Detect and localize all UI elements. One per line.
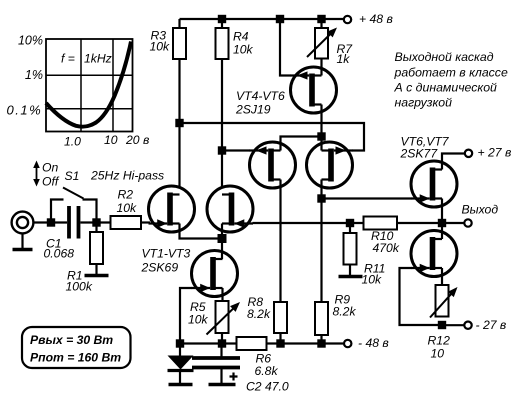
bottom line left segment: [180, 342, 237, 344]
svg-text:0.068: 0.068: [44, 247, 75, 261]
wire VT7 lower gate loop to R12 bottom: [400, 268, 443, 325]
output node junction: [438, 219, 446, 227]
svg-text:Рвых = 30 Вт: Рвых = 30 Вт: [30, 333, 113, 347]
svg-text:25Hz Hi-pass: 25Hz Hi-pass: [90, 169, 164, 183]
wire VT5 source to R8: [279, 180, 281, 303]
wire node B to R1: [95, 223, 97, 233]
junction VT4 gate column top: [276, 15, 284, 23]
wire rail to R7: [320, 19, 322, 28]
transistor VT1 2SK69: [149, 186, 195, 232]
transistor VT7 lower 2SK77: [411, 231, 457, 277]
capacitor C1: [67, 206, 71, 239]
wire diode to ground: [179, 371, 181, 384]
node G junction VT1 VT2 sources VT3 drain: [218, 234, 227, 243]
svg-text:8.2k: 8.2k: [247, 307, 271, 321]
wire VT1 source to node G: [180, 224, 223, 239]
power note box: [22, 327, 131, 368]
wire node J to C2: [220, 344, 222, 357]
svg-text:Off: Off: [42, 175, 60, 189]
svg-text:6.8k: 6.8k: [255, 364, 279, 378]
resistor R8: [274, 302, 287, 333]
svg-text:0.1%: 0.1%: [7, 103, 43, 118]
terminal +48 V: [344, 16, 351, 23]
wire C2 to ground: [220, 369, 222, 383]
svg-text:2SK69: 2SK69: [141, 261, 179, 275]
switch S1: [51, 200, 64, 223]
THD graph frame: [46, 39, 133, 132]
svg-text:8.2k: 8.2k: [333, 305, 357, 319]
node K junction R8: [276, 339, 284, 347]
wire VT3 source to R5: [221, 288, 223, 301]
svg-text:20 в: 20 в: [125, 133, 149, 147]
svg-text:f =: f =: [61, 52, 75, 66]
resistor R12 variable: [436, 285, 449, 317]
node F junction VT6 source: [317, 194, 325, 202]
svg-text:S1: S1: [65, 169, 80, 183]
svg-text:- 27 в: - 27 в: [476, 318, 507, 332]
resistor R3: [173, 28, 186, 59]
wire rail to R4: [221, 19, 223, 28]
wire R2 to VT1 gate: [141, 221, 150, 223]
wire connector to ground: [21, 233, 23, 248]
wire VT4 source to node E: [320, 105, 322, 137]
svg-text:R12: R12: [428, 334, 451, 348]
svg-text:1k: 1k: [337, 52, 351, 66]
svg-text:R4: R4: [233, 30, 249, 44]
wire node F to R9: [320, 199, 322, 303]
capacitor C2 electrolytic: [192, 356, 240, 360]
wire R10 to output node: [397, 222, 442, 224]
svg-text:C2 47.0: C2 47.0: [246, 380, 289, 394]
wire node D to VT5 gate: [222, 149, 250, 151]
svg-text:1.0: 1.0: [64, 135, 81, 149]
svg-text:10k: 10k: [233, 43, 254, 57]
svg-text:On: On: [42, 161, 58, 175]
svg-text:Выход: Выход: [462, 203, 499, 217]
transistor VT2 2SK69: [207, 186, 253, 232]
node D junction VT2 drain to VT5 gate: [218, 146, 226, 154]
wire connector to C1: [33, 221, 67, 223]
resistor R1: [90, 232, 103, 264]
resistor R9: [315, 302, 328, 335]
svg-text:2SK77: 2SK77: [400, 147, 439, 161]
svg-text:Выходной каскад: Выходной каскад: [395, 50, 494, 64]
ground below C2: [209, 383, 236, 387]
svg-text:VT4-VT6: VT4-VT6: [236, 89, 285, 103]
svg-text:Рпот = 160 Вт: Рпот = 160 Вт: [30, 351, 121, 365]
svg-text:+ 48 в: + 48 в: [359, 12, 393, 26]
svg-text:470k: 470k: [373, 241, 400, 255]
wire output to terminal: [442, 222, 464, 224]
terminal output: [464, 219, 471, 226]
node E junction VT4 source VT5 VT6 drains: [317, 132, 325, 140]
wire rail to R3: [178, 19, 180, 28]
junction R7 top: [317, 15, 325, 23]
node N junction R12 bottom: [438, 321, 446, 329]
resistor R6: [237, 337, 267, 350]
wire node C to VT6 gate: [180, 123, 365, 151]
svg-text:А с динамической: А с динамической: [394, 81, 498, 95]
transistor VT3 2SK69: [192, 251, 238, 297]
wire R3 to VT1 drain: [178, 59, 180, 188]
wire C1 to R2: [81, 221, 111, 223]
svg-text:работает в классе: работает в классе: [394, 66, 508, 80]
terminal +27 V: [465, 150, 472, 157]
node M junction R11: [346, 219, 354, 227]
transistor VT4 2SJ19: [291, 67, 337, 113]
ground below R11: [339, 275, 363, 279]
wire VT2 source to node G: [221, 224, 223, 239]
node A junction before C1: [47, 218, 55, 226]
svg-text:VT1-VT3: VT1-VT3: [142, 247, 191, 261]
svg-text:10k: 10k: [117, 201, 138, 215]
input connector X1: [12, 212, 34, 234]
wire node G to VT3 drain: [221, 239, 223, 260]
svg-text:10k: 10k: [362, 273, 383, 287]
THD curve: [46, 42, 131, 127]
wire VT5 drain to node E: [281, 137, 322, 151]
terminal -48 V: [344, 340, 351, 347]
transistor VT5 2SJ19: [250, 142, 296, 188]
top supply rail +48V wire: [180, 18, 344, 20]
svg-text:R2: R2: [118, 188, 134, 202]
svg-text:10: 10: [431, 347, 445, 361]
svg-text:2SJ19: 2SJ19: [235, 103, 271, 117]
node J junction R5 C2: [218, 339, 226, 347]
node L junction R9: [317, 339, 325, 347]
wire VT7 lower source to R12: [441, 268, 443, 285]
resistor R4: [216, 28, 229, 59]
resistor R7 variable: [315, 28, 328, 59]
resistor R2: [111, 216, 142, 229]
diode VD1: [168, 356, 194, 370]
resistor R10: [364, 217, 398, 230]
wire R12 to -27V terminal: [442, 324, 464, 326]
ground below diode: [169, 383, 193, 387]
svg-text:+ 27 в: + 27 в: [478, 146, 512, 160]
wire node H to diode: [179, 344, 181, 357]
wire VT6 drain to node E: [320, 137, 322, 151]
wire R5 to node J: [221, 333, 223, 344]
wire R4 to VT2 drain: [221, 59, 223, 188]
resistor R11: [344, 233, 357, 265]
wire R9 to bottom line: [320, 335, 322, 344]
node B junction after C1: [92, 218, 100, 226]
ground below R1: [85, 274, 109, 278]
svg-text:10%: 10%: [18, 34, 43, 48]
svg-text:100k: 100k: [66, 280, 93, 294]
terminal -27 V: [464, 322, 471, 329]
wire node F to VT7 upper gate: [322, 197, 412, 199]
svg-text:10k: 10k: [188, 313, 209, 327]
wire VT7 upper source to output: [441, 199, 443, 224]
wire R8 to bottom line: [279, 333, 281, 344]
wire VT4 gate from rail: [280, 19, 291, 76]
wire node M to R11: [349, 223, 351, 233]
wire VT3 gate to bottom node H: [180, 288, 192, 344]
svg-text:10: 10: [104, 133, 118, 147]
junction R4 top: [218, 15, 226, 23]
svg-text:1%: 1%: [25, 68, 43, 82]
resistor R5 variable: [216, 301, 229, 333]
wire R11 to ground: [349, 265, 351, 276]
wire VT7 lower drain to output node: [441, 223, 443, 239]
node C junction R3 bottom: [175, 119, 183, 127]
transistor VT6 2SJ19: [307, 142, 353, 188]
wire VT2 gate feedback line: [253, 222, 364, 224]
wire R1 to ground: [95, 264, 97, 274]
wire VT7 upper drain to +27V: [442, 154, 464, 170]
wire R7 to VT4 drain: [320, 59, 322, 76]
transistor VT7 upper 2SK77: [411, 161, 457, 207]
wire VT6 source to node F: [320, 180, 322, 199]
ground at input: [13, 248, 33, 252]
svg-text:1kHz: 1kHz: [84, 52, 112, 66]
svg-text:- 48 в: - 48 в: [358, 336, 389, 350]
svg-text:10k: 10k: [150, 40, 171, 54]
bottom line right segment to -48V: [267, 342, 344, 344]
On/Off arrow: [36, 165, 38, 182]
node H junction diode VT3 gate: [176, 339, 184, 347]
svg-text:нагрузкой: нагрузкой: [395, 96, 453, 110]
